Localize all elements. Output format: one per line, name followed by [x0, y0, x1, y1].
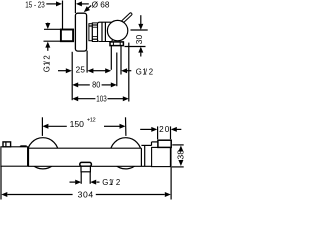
svg-text:G1/2: G1/2	[136, 68, 153, 77]
dim left arrow at escutcheon face	[76, 1, 82, 6]
dim 38 up arrow	[178, 146, 183, 152]
dim 150 line left	[48, 125, 66, 127]
outlet nipple left line	[80, 172, 82, 184]
bar front fill	[27, 148, 152, 166]
left knob	[27, 138, 58, 169]
right flange line B	[144, 146, 146, 167]
outlet pipe left line	[110, 46, 112, 70]
dim 80 line left	[77, 84, 89, 86]
leader arrowhead	[84, 6, 90, 12]
dim 20 ext line left	[157, 126, 159, 139]
outlet nut inner line 1	[112, 42, 114, 46]
dim 150 ext line right	[125, 117, 127, 136]
right knob	[110, 138, 141, 169]
dim 150 label	[70, 118, 96, 129]
svg-text:25: 25	[76, 66, 86, 75]
front G1/2 right-pointing arrow	[75, 180, 81, 185]
dim 304 ext right	[170, 167, 172, 200]
dim 103 right arrow	[123, 96, 129, 101]
valve mid block rung bottom2	[92, 36, 97, 38]
right flange line A	[140, 148, 142, 166]
left top box	[3, 142, 11, 147]
dim 30 line upper	[140, 15, 142, 24]
G1/2 right label	[136, 68, 153, 77]
right end body right edge thick	[170, 147, 172, 166]
G1/2 dim line lower	[47, 48, 49, 51]
outlet pipe right line	[120, 46, 122, 75]
bar bottom edge	[28, 165, 152, 167]
right top box	[158, 140, 171, 147]
front G1/2 right tail	[97, 181, 100, 183]
outlet center extension line	[116, 53, 118, 87]
svg-text:G1/2: G1/2	[43, 55, 52, 72]
dim 15-23 label	[25, 0, 45, 9]
left step collar vertical	[19, 145, 21, 148]
right end body	[152, 147, 171, 166]
dim 80 right arrow	[111, 82, 117, 87]
shared tail to pipe	[93, 70, 106, 72]
dim 304 right arrow	[165, 192, 171, 197]
valve body rounded	[98, 22, 113, 41]
dim 25 label	[76, 66, 86, 75]
dim 20 ext line right	[170, 126, 172, 139]
dim 30 line lower	[140, 53, 142, 57]
svg-text:15 - 23: 15 - 23	[25, 0, 45, 9]
union pipe top line	[44, 28, 61, 30]
bar top edge	[28, 147, 141, 149]
dim 80 left arrow	[72, 82, 78, 87]
dim 150 ext line left	[41, 117, 43, 136]
outlet collar	[80, 162, 92, 166]
svg-text:G1/2: G1/2	[102, 178, 120, 187]
dim 38 ext top	[172, 144, 183, 146]
right step vertical	[151, 142, 153, 146]
dim 304 label	[78, 190, 94, 200]
dim 103 left arrow	[72, 96, 78, 101]
dim 150 right arrow	[120, 124, 126, 129]
dim 20 tail left	[140, 128, 152, 130]
valve mid block chamfer bottom	[92, 38, 97, 40]
front G1/2 label	[102, 178, 120, 187]
union nut square	[61, 30, 73, 42]
dim 103 line right	[108, 98, 124, 100]
outlet nut inner line 2	[119, 42, 121, 46]
svg-text:30: 30	[134, 35, 144, 45]
dim 150 line right	[104, 125, 120, 127]
dim 20 label	[159, 125, 170, 134]
svg-text:20: 20	[159, 125, 170, 134]
outlet nipple block	[81, 166, 90, 172]
dim 150 left arrow	[42, 124, 48, 129]
dim 38 rotated label	[175, 150, 185, 160]
escutcheon	[75, 13, 86, 51]
G1/2 dim up arrow	[45, 42, 50, 48]
dim 304 left arrow	[1, 192, 7, 197]
dim 20 tail right	[176, 128, 181, 130]
pipe width left-pointing arrow	[121, 68, 127, 73]
dim 103 line left	[77, 98, 95, 100]
svg-text:80: 80	[92, 79, 100, 89]
dim 25 left-pointing arrow	[87, 68, 93, 73]
knob circle	[107, 20, 127, 40]
left flange	[27, 147, 29, 166]
svg-text:38: 38	[175, 150, 185, 160]
left step collar	[20, 145, 26, 147]
dim 30 ext line top	[131, 29, 148, 31]
svg-text:+12: +12	[87, 118, 96, 124]
dim 304 line right	[96, 194, 165, 196]
extension line escutcheon face up	[74, 0, 76, 13]
front G1/2 left tail	[70, 181, 76, 183]
svg-text:150: 150	[70, 119, 85, 129]
body inner line 2	[104, 22, 106, 41]
dim 38 down arrow	[178, 160, 183, 166]
G1/2 rotated label	[43, 55, 52, 72]
handle lever pin inner	[123, 14, 131, 21]
mid extension line left shared	[71, 52, 73, 100]
valve mid block chamfer top	[92, 24, 97, 26]
dim 20 left-pointing arrow	[171, 127, 177, 132]
connector ladder small	[89, 24, 92, 41]
G1/2 vertical dim line upper	[47, 23, 49, 25]
dim 80 line right	[102, 84, 112, 86]
dim 25 tail left	[58, 70, 67, 72]
dim 30 down arrow	[138, 24, 143, 30]
ladder lines	[89, 25, 92, 27]
union pipe bottom line	[44, 40, 61, 42]
G1/2 dim down arrow	[45, 23, 50, 29]
dim 304 ext left	[0, 166, 2, 200]
dim 20 right-pointing arrow	[151, 127, 157, 132]
dim 25 right-pointing arrow	[66, 68, 72, 73]
outlet nut	[110, 42, 123, 46]
extension line wall	[62, 1, 64, 30]
dim 15-23 tail line	[46, 3, 57, 5]
svg-text:304: 304	[78, 190, 94, 200]
pipe width right-pointing arrow	[105, 68, 111, 73]
leader for diameter 68	[87, 6, 92, 10]
handle lever pin outer	[123, 14, 131, 21]
left body	[1, 147, 28, 166]
dim 30 up arrow	[138, 47, 143, 53]
front G1/2 left-pointing arrow	[90, 180, 96, 185]
dim 80 label	[92, 79, 100, 89]
right step top	[152, 141, 158, 143]
mid extension line knob right	[128, 43, 130, 102]
valve mid block	[92, 23, 97, 42]
G1/2 right tail	[126, 70, 131, 72]
svg-text:103: 103	[96, 93, 107, 103]
tail of left arrow	[81, 3, 89, 5]
dim 38 ext bottom	[172, 166, 184, 168]
right step collar	[141, 144, 151, 146]
label diameter 68	[92, 0, 110, 9]
left top box inner line	[5, 142, 7, 147]
dim 30 rotated label	[134, 35, 144, 45]
outlet nipple right line	[89, 172, 91, 184]
dim 15-23 right arrow	[56, 1, 62, 6]
svg-text:Ø 68: Ø 68	[92, 0, 110, 9]
dim 304 line left	[7, 194, 72, 196]
body inner line 1	[101, 22, 103, 41]
dim 30 ext line bottom	[125, 46, 146, 48]
mid extension line escutcheon right	[86, 51, 88, 73]
valve mid block rung top2	[92, 26, 97, 28]
dim 103 label	[96, 93, 107, 103]
